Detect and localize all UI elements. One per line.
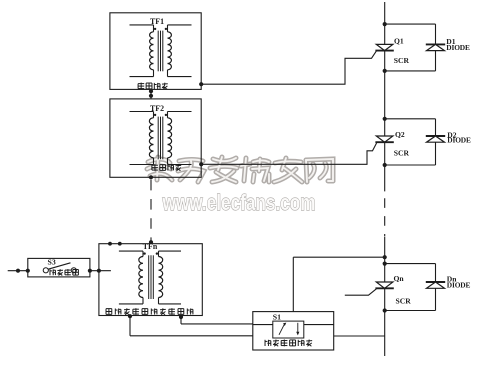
wire left loop to S1 top [293, 257, 384, 311]
wire gate of Q2 from TF2 [199, 143, 377, 166]
box trigger-pulse unit TF1 [110, 13, 201, 90]
label TFn [143, 242, 158, 251]
box thyristor logic driver TFn [99, 244, 202, 316]
node bottom junction Q1 branch [383, 69, 387, 73]
watermark chinese logo [147, 157, 333, 182]
svg-text:DIODE: DIODE [446, 43, 470, 52]
wire main bus top section [384, 2, 386, 191]
label SCR of Qn [396, 296, 412, 305]
wire from node A to S1 lower input [130, 316, 253, 336]
label DIODE of Dn [447, 281, 471, 290]
node bottom junction Q2 branch [383, 163, 387, 167]
svg-text:SCR: SCR [394, 149, 410, 158]
transformer TF2 [130, 112, 192, 165]
wire gate of Q1 from TF1 [199, 51, 376, 86]
wire dashed link TF2 to TFn [150, 180, 152, 242]
label TF1 [150, 17, 164, 26]
svg-text:DIODE: DIODE [447, 281, 471, 290]
diode D2 [426, 136, 445, 142]
svg-text:SCR: SCR [394, 56, 410, 65]
box signal acquisition S1 [253, 312, 334, 350]
node B on TFn bottom edge [179, 315, 183, 319]
diode Dn [426, 282, 445, 288]
node A on TFn bottom edge [128, 314, 132, 318]
node bottom junction Dn branch [383, 308, 387, 312]
switch S3 symbol [43, 263, 76, 273]
svg-text:SCR: SCR [396, 296, 412, 305]
wire Q1 branch bottom [385, 51, 436, 71]
wire main bus bottom section [384, 237, 386, 356]
svg-text:S1: S1 [273, 312, 281, 321]
label chinese trigger pulse (box TF2) [152, 164, 181, 171]
wire Dn branch top [385, 264, 436, 282]
label SCR of Q1 [394, 56, 410, 65]
thyristor Q2 [375, 136, 393, 142]
arrow symbols inside S1 [279, 323, 299, 336]
svg-text:Q2: Q2 [395, 130, 405, 139]
wire between TF1 box and TF2 box [149, 89, 153, 99]
diode D1 [426, 44, 445, 50]
nodes on TFn box top edge [108, 242, 122, 246]
svg-text:www.elecfans.com: www.elecfans.com [162, 190, 316, 215]
node top junction Q2 branch [383, 117, 387, 121]
label chinese trigger pulse (box TF1) [138, 83, 168, 90]
wire from node B to S1 upper input [181, 316, 253, 324]
label Qn [394, 274, 405, 283]
node top of TFn box [149, 240, 153, 244]
node bottom of TF2 box [149, 175, 153, 179]
svg-text:TFn: TFn [143, 242, 158, 251]
node left tap junction to S1 [383, 255, 387, 259]
svg-text:DIODE: DIODE [447, 136, 471, 145]
node top junction Dn branch [383, 262, 387, 266]
transformer TF1 [130, 25, 192, 77]
label Q2 [395, 130, 405, 139]
wire gate of Qn [345, 289, 377, 295]
label chinese trigger command (box S3) [50, 269, 78, 275]
box trigger command S3 [28, 258, 90, 277]
label DIODE of D1 [446, 43, 470, 52]
svg-text:S3: S3 [48, 258, 56, 267]
label S1 [273, 312, 281, 321]
wire left lead of S3 [8, 269, 30, 273]
label chinese signal acquisition circuit (box S1) [265, 339, 312, 346]
wire main bus dashed section [384, 198, 386, 236]
wire right lead of S3 into TFn box [88, 269, 111, 273]
wire Q2 branch top [385, 119, 436, 136]
label D2 [447, 130, 456, 139]
inner sampling element of S1 [253, 321, 334, 338]
thyristor Qn [375, 282, 393, 288]
label SCR of Q2 [394, 149, 410, 158]
label Q1 [394, 36, 404, 45]
label Dn [447, 274, 457, 283]
svg-text:Qn: Qn [394, 274, 405, 283]
label S3 [48, 258, 56, 267]
wire S1 output to bus [334, 335, 385, 337]
transformer TFn [119, 251, 181, 304]
node top junction Q1 branch [383, 22, 387, 26]
wire Dn branch bottom [385, 288, 436, 310]
watermark url text [162, 190, 316, 215]
thyristor Q1 [375, 44, 393, 50]
wire Q1 branch top [385, 24, 436, 44]
label chinese thyristor logic drive circuit (box TFn) [106, 308, 193, 315]
label DIODE of D2 [447, 136, 471, 145]
svg-text:Q1: Q1 [394, 36, 404, 45]
box trigger-pulse unit TF2 [110, 99, 201, 177]
wire Q2 branch bottom [385, 142, 436, 165]
label D1 [446, 37, 455, 46]
label TF2 [150, 104, 164, 113]
